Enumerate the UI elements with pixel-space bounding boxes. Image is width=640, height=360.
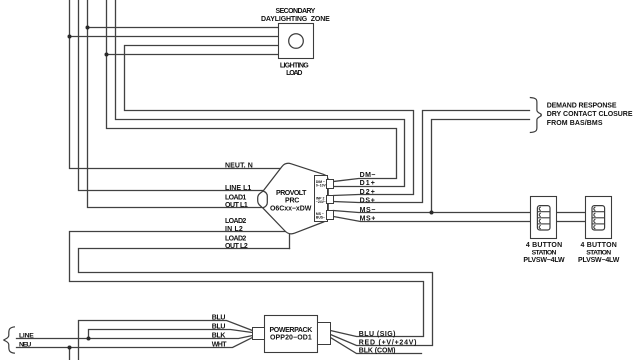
node: neutral junction xyxy=(68,346,72,350)
svg-text:SECONDARY: SECONDARY xyxy=(276,8,316,15)
controller PROVOLT PRC body xyxy=(258,163,329,234)
wire: LOAD2 IN L2 run to powerpack BLU (SIG) xyxy=(70,232,424,337)
svg-text:IN L2: IN L2 xyxy=(225,226,243,233)
brace: demand response group xyxy=(530,98,541,133)
svg-text:−24V−: −24V− xyxy=(316,200,326,204)
svg-text:OUT L2: OUT L2 xyxy=(225,243,248,250)
svg-text:DM−: DM− xyxy=(360,172,376,179)
svg-text:NEUT. N: NEUT. N xyxy=(225,163,253,170)
wire: dim violet run fixture / DM- to controller xyxy=(107,1,397,182)
wire: powerpack BLU input from load 2 circuit xyxy=(79,321,253,360)
terminal pin block 2 (D2/DS) xyxy=(327,196,334,204)
wire: MS- bus to button stations xyxy=(334,211,531,213)
svg-text:LINE: LINE xyxy=(19,332,34,339)
wire: LINE feed to powerpack BLK input xyxy=(17,336,253,339)
svg-text:LOAD2: LOAD2 xyxy=(225,235,247,242)
svg-text:RED (+V/+24V): RED (+V/+24V) xyxy=(359,339,417,346)
svg-text:0−10V: 0−10V xyxy=(316,184,327,188)
node: dim wire tap to fixture xyxy=(105,53,109,57)
wire: powerpack BLK (COM) output xyxy=(331,338,422,354)
svg-text:BLU (SIG): BLU (SIG) xyxy=(359,331,396,338)
wire: controller OUT L2 stub to bottom vertex xyxy=(289,235,291,249)
svg-text:PRC: PRC xyxy=(285,198,300,205)
terminal pin block 1 (DM/D1) xyxy=(327,180,334,189)
svg-text:NEU: NEU xyxy=(19,342,32,349)
terminal tiny pin labels xyxy=(316,180,327,219)
node: MS- junction to demand response xyxy=(430,211,434,215)
node: neutral tap to fixture xyxy=(68,35,72,39)
svg-text:DAYLIGHTING ZONE: DAYLIGHTING ZONE xyxy=(261,16,330,23)
wire: neutral continuation below xyxy=(69,348,71,360)
svg-text:STATION: STATION xyxy=(532,249,557,256)
wire: MS+ bus to button stations xyxy=(334,217,531,222)
wire: MS- branch to demand response xyxy=(432,120,530,213)
node: switched hot tap to fixture xyxy=(86,26,90,30)
wire: MS+ between stations xyxy=(557,221,586,223)
wire: dim gray run / D1+ riser to controller xyxy=(116,1,405,187)
svg-text:MS+: MS+ xyxy=(360,216,376,223)
svg-text:LOAD: LOAD xyxy=(286,70,303,77)
powerpack OPP20 box xyxy=(265,316,318,353)
svg-text:POWERPACK: POWERPACK xyxy=(270,327,313,334)
svg-text:STATION: STATION xyxy=(586,249,611,256)
svg-text:DS+: DS+ xyxy=(360,197,376,204)
svg-text:D1+: D1+ xyxy=(360,180,376,187)
svg-text:OUT L1: OUT L1 xyxy=(225,202,248,209)
wire: NEU feed to powerpack WHT input xyxy=(17,338,253,348)
4 button station 1 PLVSW-4LW xyxy=(531,197,557,239)
svg-text:4 BUTTON: 4 BUTTON xyxy=(581,242,618,249)
lighting load fixture box xyxy=(279,24,314,59)
svg-text:MS−: MS− xyxy=(360,207,376,214)
svg-text:PLVSW−4LW: PLVSW−4LW xyxy=(578,257,620,264)
svg-text:DRY CONTACT CLOSURE: DRY CONTACT CLOSURE xyxy=(547,111,633,118)
svg-text:LOAD1: LOAD1 xyxy=(225,195,247,202)
wire: switched load 1 riser to LOAD1 OUT L1 xyxy=(88,1,263,208)
wire: lighting load neutral tap to fixture xyxy=(70,36,279,38)
svg-text:FROM BAS/BMS: FROM BAS/BMS xyxy=(547,120,603,127)
svg-text:PROVOLT: PROVOLT xyxy=(276,190,307,197)
lighting load lamp circle xyxy=(289,34,304,49)
4 button station 2 PLVSW-4LW xyxy=(586,197,612,239)
svg-text:4 BUTTON: 4 BUTTON xyxy=(526,242,563,249)
wire: lighting load hot tap to fixture (top wire) xyxy=(88,27,279,29)
svg-text:BUS−: BUS− xyxy=(316,216,325,220)
svg-text:BLK (COM): BLK (COM) xyxy=(359,348,396,355)
svg-text:BLU: BLU xyxy=(212,315,226,322)
controller terminal strip xyxy=(315,176,328,222)
svg-text:LINE L1: LINE L1 xyxy=(225,185,252,192)
terminal pin block 3 (MS) xyxy=(327,211,334,220)
controller input node lens (right half) xyxy=(263,191,268,208)
svg-text:LIGHTING: LIGHTING xyxy=(280,63,309,70)
svg-text:PLVSW−4LW: PLVSW−4LW xyxy=(523,257,565,264)
svg-text:O6Cxx−xDW: O6Cxx−xDW xyxy=(270,206,312,213)
svg-text:LOAD2: LOAD2 xyxy=(225,218,247,225)
svg-text:OPP20−OD1: OPP20−OD1 xyxy=(270,335,312,342)
svg-text:DEMAND RESPONSE: DEMAND RESPONSE xyxy=(547,103,617,110)
wire: powerpack BLU input switched tap xyxy=(89,330,253,339)
svg-text:BLK: BLK xyxy=(212,332,226,339)
wire: DS+ to demand response dry contact xyxy=(334,111,530,203)
node: line tap junction xyxy=(87,337,91,341)
wire: fixture dim wire 3 / D2+ run xyxy=(125,46,414,196)
wire: LOAD2 OUT L2 run to powerpack RED (+V/+24V) xyxy=(79,249,433,346)
brace: line/neutral feed group xyxy=(4,327,15,353)
powerpack input connector xyxy=(253,328,265,340)
svg-text:D2+: D2+ xyxy=(360,189,376,196)
wire: fixture dim wire 4 tap xyxy=(107,54,279,56)
wire: MS- between stations xyxy=(557,212,586,214)
wire: line riser from panel to LINE L1 input xyxy=(79,1,263,191)
powerpack output connector xyxy=(318,323,331,345)
svg-text:WHT: WHT xyxy=(212,342,228,349)
svg-text:BLU: BLU xyxy=(212,323,226,330)
wire: neutral riser from panel to NEUT. N input xyxy=(70,1,281,169)
